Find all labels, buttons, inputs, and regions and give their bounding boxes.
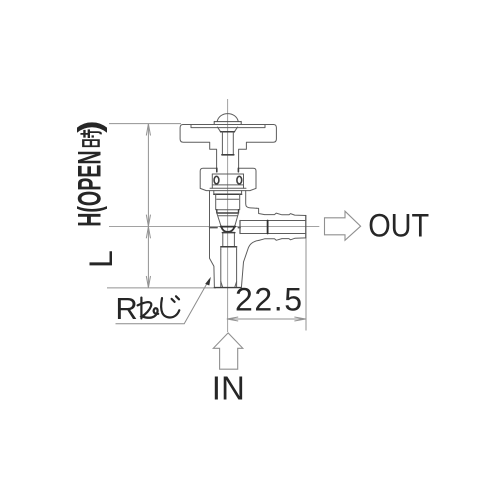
arrowhead H top	[146, 124, 150, 136]
disc inner line	[218, 215, 237, 217]
center line outlet axis	[109, 226, 319, 228]
gland ellipse right	[237, 176, 242, 184]
thread right taper	[241, 262, 243, 288]
stem recess slot	[222, 132, 233, 155]
cone bottom line	[222, 232, 234, 234]
bore collar chamfer	[221, 247, 237, 250]
arrowhead L bottom	[146, 276, 150, 288]
extension line right of 22.5	[305, 238, 307, 330]
neck-nut junction ticks	[217, 168, 239, 172]
packing nut outline	[200, 168, 256, 190]
svg-text:IN: IN	[212, 369, 245, 406]
bore walls	[221, 249, 237, 287]
screw recess notch	[217, 127, 237, 132]
outlet bore top	[240, 220, 306, 222]
svg-text:OUT: OUT	[368, 208, 429, 244]
nut bottom inner line	[210, 187, 246, 189]
gland side verticals	[214, 191, 242, 195]
disc holder top	[217, 210, 239, 213]
bore top collar	[221, 246, 237, 248]
label Rねじ	[115, 291, 179, 326]
nut inner line lower	[212, 184, 243, 186]
label H(OPEN時)	[72, 121, 108, 227]
center line vertical axis	[227, 99, 229, 332]
cavity right wall	[239, 221, 241, 234]
outlet barb top	[257, 208, 306, 215]
stem guide box	[216, 194, 240, 209]
gland lower dark line	[214, 193, 242, 195]
body upper right edge	[246, 191, 257, 209]
leader line for Rねじ	[116, 280, 210, 324]
disc holder taper	[217, 213, 239, 226]
svg-text:H(OPEN: H(OPEN	[72, 150, 108, 226]
arrowhead H bottom	[146, 215, 150, 227]
leader arrowhead	[205, 277, 211, 286]
disc seat chord	[221, 226, 236, 228]
stem lower	[223, 233, 235, 247]
body upper left edge	[210, 191, 215, 288]
bore depth divider	[267, 221, 269, 234]
cap plate	[214, 121, 241, 124]
arrowhead 22.5 left	[227, 317, 238, 321]
valve bottom edge	[214, 287, 241, 289]
handle top edge	[183, 124, 274, 126]
seat surface left	[210, 227, 218, 229]
outlet bore bottom	[240, 233, 306, 235]
seat surface right	[238, 227, 240, 229]
disc V cup	[221, 226, 235, 232]
svg-text:L: L	[83, 250, 119, 268]
notch bottom	[221, 131, 235, 133]
svg-text:): )	[73, 121, 108, 133]
guide inner line	[217, 198, 239, 200]
arrowhead L top	[146, 227, 150, 239]
nut inner line upper	[212, 173, 243, 175]
kanji 時	[80, 129, 100, 146]
outlet barb bottom	[259, 238, 306, 241]
gland ellipse left	[214, 176, 219, 184]
arrowhead 22.5 right	[294, 317, 305, 321]
dimension line H and L vertical	[147, 124, 149, 288]
svg-text:22.5: 22.5	[235, 282, 302, 318]
IN flow arrow	[213, 333, 243, 369]
outlet end face	[305, 216, 307, 238]
kana じ	[161, 296, 179, 317]
OUT flow arrow	[325, 211, 361, 240]
kana ね	[138, 298, 159, 319]
svg-text:R: R	[115, 291, 137, 326]
bottom chamfer marks	[221, 282, 237, 288]
extension line top (handle top)	[109, 123, 181, 125]
dimension line 22.5	[227, 318, 306, 320]
extension line bottom (valve bottom)	[107, 287, 216, 289]
body under-outlet shoulder	[244, 240, 259, 262]
handle outline	[180, 125, 276, 168]
handle inner chamfer line	[191, 125, 265, 128]
nut inner verticals	[212, 174, 243, 188]
dome cap	[217, 114, 238, 122]
slot bottom	[222, 154, 234, 156]
